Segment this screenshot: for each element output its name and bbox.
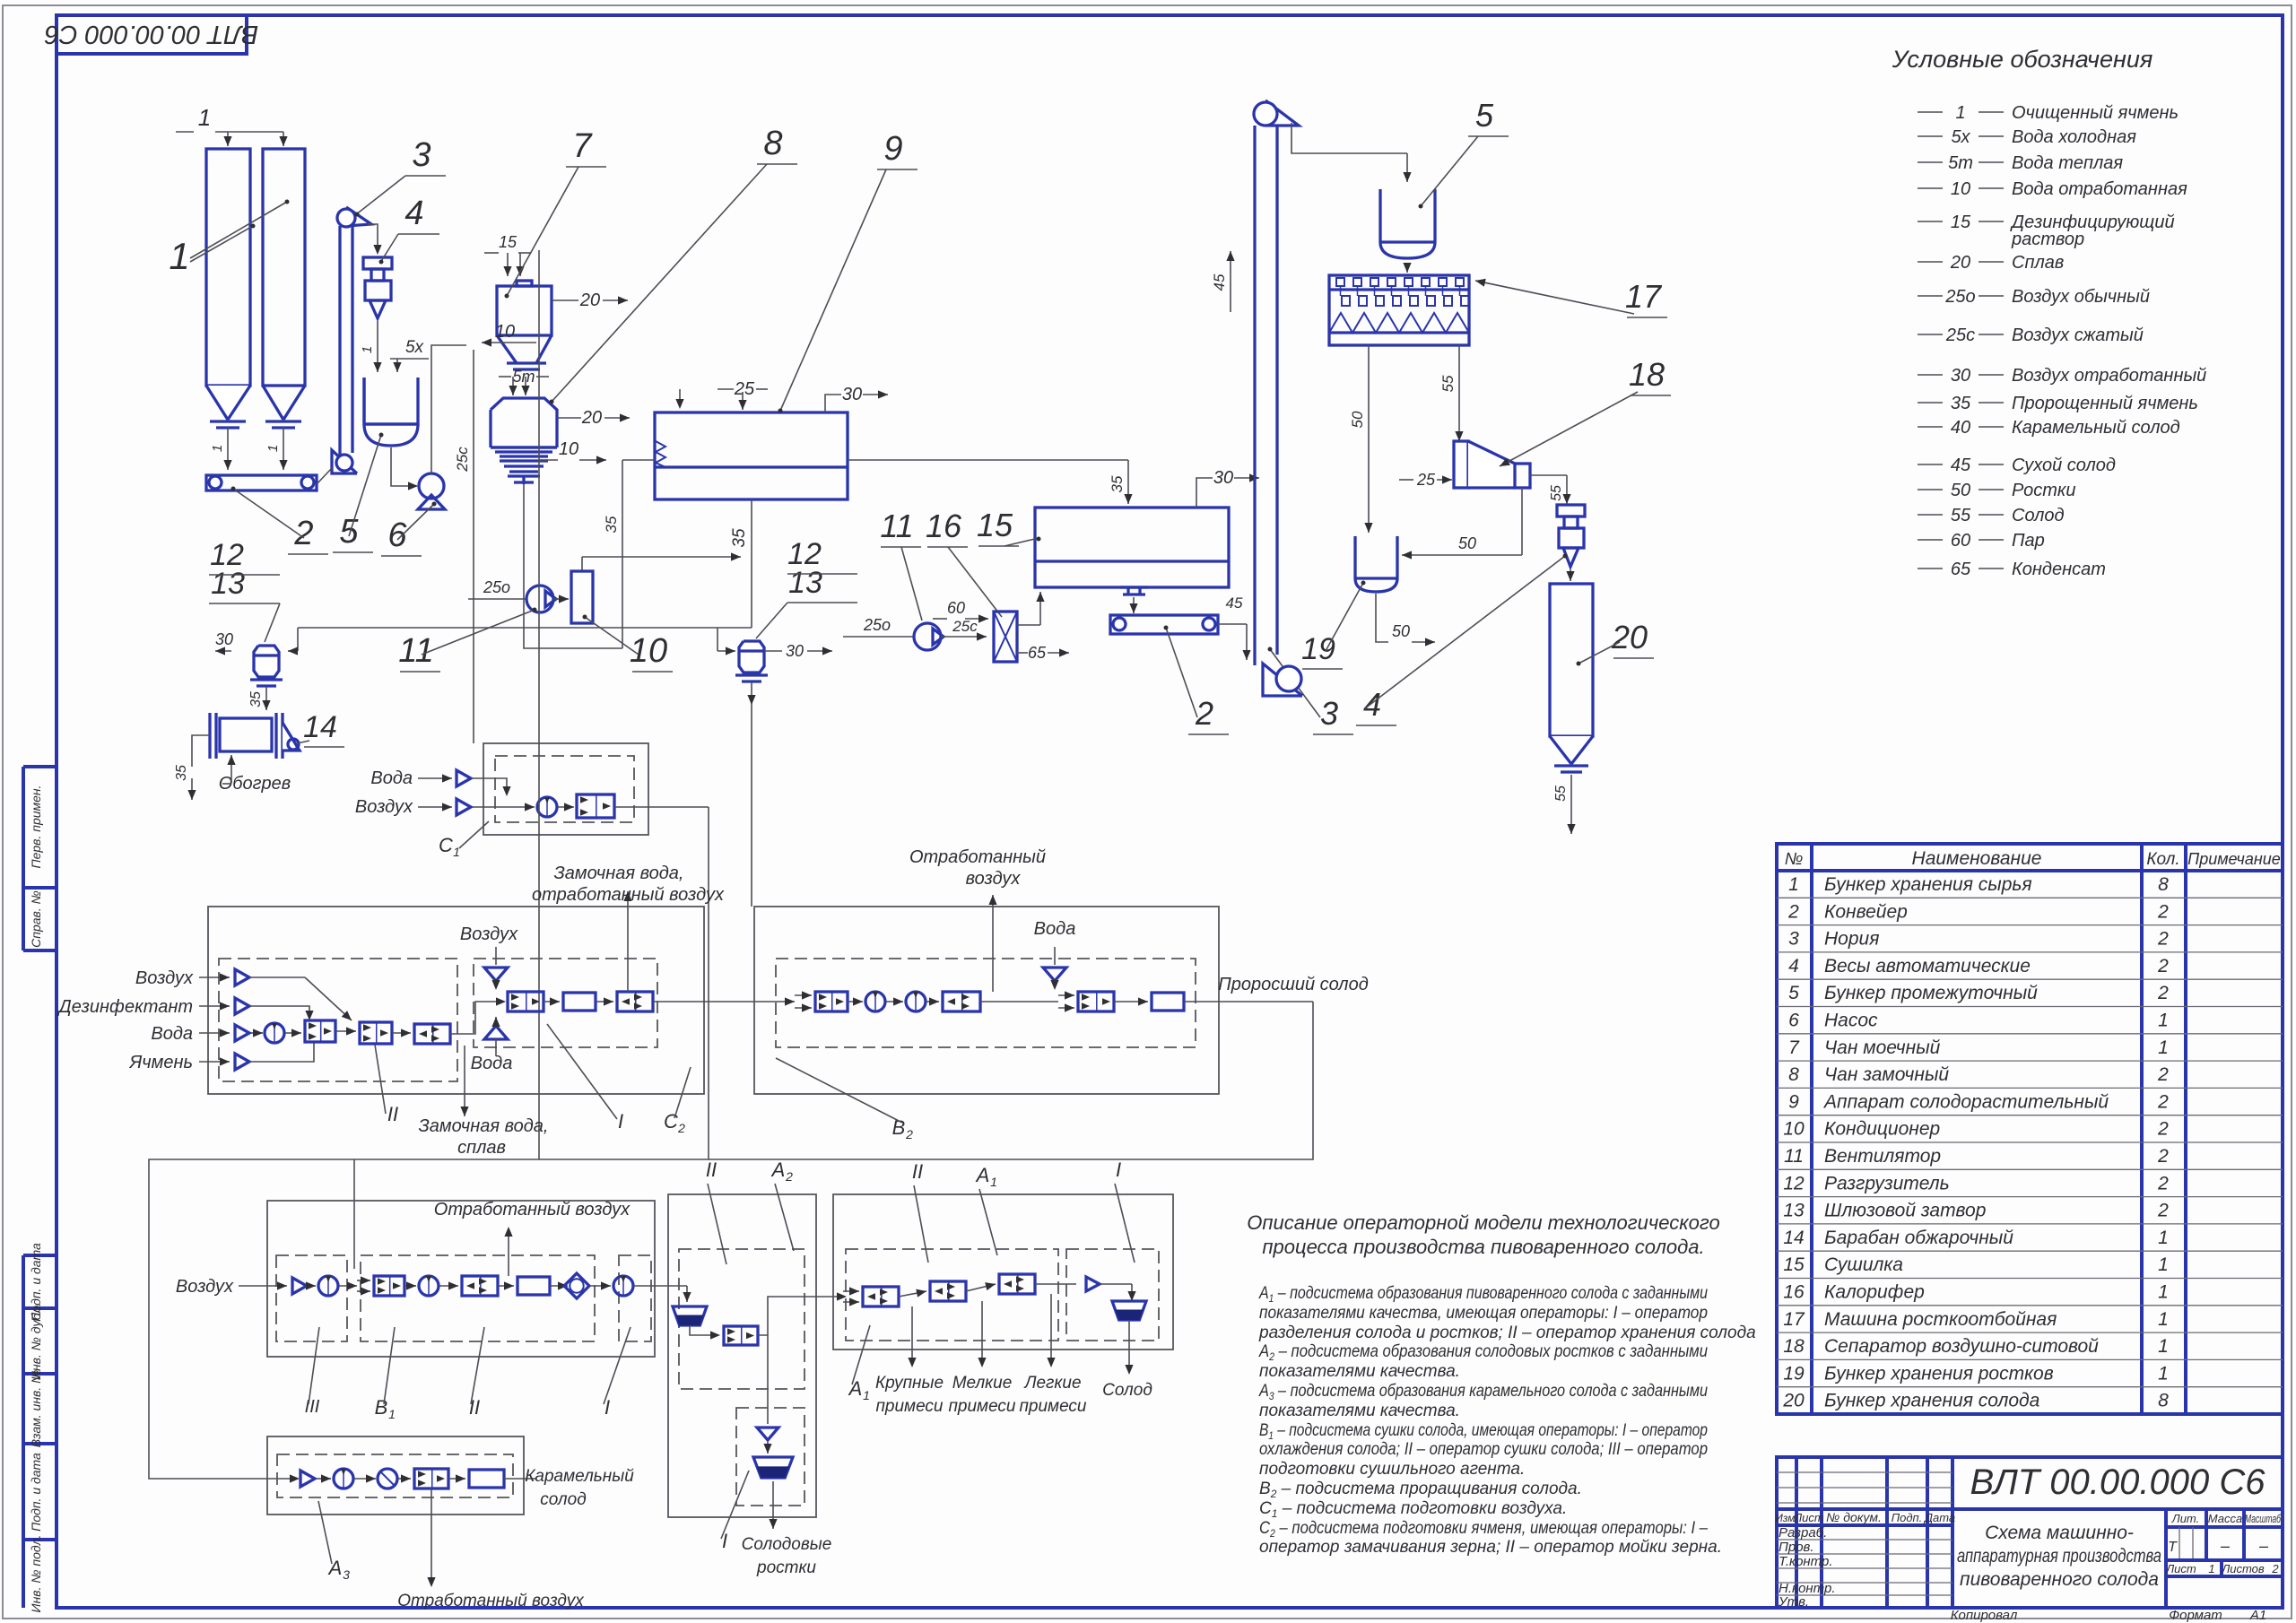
svg-text:2: 2 [2157, 1064, 2169, 1085]
svg-text:25с: 25с [1945, 325, 1975, 345]
svg-text:1: 1 [2158, 1037, 2169, 1058]
svg-text:Подп.: Подп. [1892, 1511, 1923, 1524]
svg-text:2: 2 [785, 1169, 793, 1184]
svg-text:Пар: Пар [2012, 531, 2045, 551]
svg-text:показателями качества.: показателями качества. [1259, 1402, 1460, 1420]
svg-text:Отработанный воздух: Отработанный воздух [397, 1592, 585, 1610]
svg-text:2: 2 [2157, 1201, 2169, 1221]
svg-text:Подп. и дата: Подп. и дата [29, 1453, 43, 1532]
svg-text:1: 1 [360, 346, 375, 353]
svg-text:Воздух: Воздух [355, 797, 413, 817]
svg-text:1: 1 [2158, 1282, 2169, 1303]
svg-text:1: 1 [2158, 1254, 2169, 1275]
svg-text:Пророщенный ячмень: Пророщенный ячмень [2012, 394, 2198, 413]
svg-text:Воздух: Воздух [460, 924, 518, 944]
svg-text:Чан моечный: Чан моечный [1824, 1037, 1941, 1058]
svg-text:8: 8 [763, 125, 782, 162]
svg-text:3: 3 [343, 1567, 350, 1582]
svg-text:Т.контр.: Т.контр. [1779, 1554, 1833, 1569]
svg-text:Сушилка: Сушилка [1824, 1254, 1903, 1275]
svg-text:5: 5 [339, 513, 359, 551]
svg-text:Инв. № дубл.: Инв. № дубл. [29, 1303, 43, 1380]
svg-text:Лист: Лист [1793, 1511, 1824, 1524]
svg-text:Солод: Солод [1102, 1381, 1152, 1400]
svg-text:№ докум.: № докум. [1826, 1510, 1882, 1524]
svg-text:50: 50 [1951, 481, 1970, 500]
svg-text:45: 45 [1951, 456, 1971, 475]
svg-text:Масштаб: Масштаб [2245, 1512, 2281, 1525]
svg-text:35: 35 [1109, 475, 1126, 492]
svg-text:Справ. №: Справ. № [29, 890, 43, 948]
svg-text:2: 2 [1195, 695, 1213, 732]
svg-text:Воздух отработанный: Воздух отработанный [2012, 366, 2206, 386]
svg-text:15: 15 [499, 233, 517, 251]
svg-text:3: 3 [412, 136, 430, 174]
svg-text:4: 4 [1363, 686, 1381, 723]
svg-text:Солодовые: Солодовые [742, 1535, 832, 1554]
svg-text:Отработанный: Отработанный [909, 847, 1046, 867]
svg-text:Воздух сжатый: Воздух сжатый [2012, 325, 2144, 345]
svg-text:6: 6 [387, 516, 407, 554]
svg-text:1: 1 [453, 845, 460, 859]
svg-text:1: 1 [265, 445, 281, 452]
svg-text:Бункер промежуточный: Бункер промежуточный [1824, 983, 2038, 1003]
svg-text:4: 4 [1788, 956, 1799, 976]
svg-text:2: 2 [677, 1121, 685, 1135]
svg-text:II: II [469, 1396, 480, 1419]
svg-text:17: 17 [1625, 278, 1663, 315]
svg-text:Ячмень: Ячмень [129, 1053, 193, 1072]
svg-text:Проросший солод: Проросший солод [1218, 975, 1369, 994]
svg-text:Вода: Вода [151, 1024, 193, 1044]
svg-text:16: 16 [1783, 1282, 1805, 1303]
svg-text:Вода: Вода [471, 1054, 513, 1073]
svg-text:примеси: примеси [1019, 1397, 1086, 1416]
svg-text:Дата: Дата [1923, 1511, 1955, 1524]
svg-text:Воздух: Воздух [176, 1277, 234, 1297]
svg-text:20: 20 [1950, 253, 1970, 273]
svg-text:Кондиционер: Кондиционер [1824, 1119, 1940, 1140]
svg-text:10: 10 [495, 322, 515, 342]
svg-text:13: 13 [211, 567, 245, 601]
svg-text:19: 19 [1783, 1363, 1805, 1384]
svg-text:Конденсат: Конденсат [2012, 560, 2106, 579]
svg-text:А1: А1 [2249, 1608, 2266, 1623]
svg-text:Масса: Масса [2208, 1512, 2242, 1525]
svg-text:Взам. инв. №: Взам. инв. № [29, 1370, 43, 1448]
svg-text:оператор замачивания зерна; II: оператор замачивания зерна; II – операто… [1259, 1538, 1722, 1557]
svg-text:Вода теплая: Вода теплая [2012, 153, 2123, 173]
svg-text:Перв. примен.: Перв. примен. [29, 785, 43, 868]
svg-text:55: 55 [1951, 506, 1971, 525]
svg-text:2: 2 [905, 1127, 913, 1141]
svg-text:сплав: сплав [457, 1138, 506, 1158]
svg-text:Карамельный солод: Карамельный солод [2012, 418, 2180, 438]
svg-text:Наименование: Наименование [1912, 848, 2042, 869]
svg-text:50: 50 [1349, 411, 1366, 428]
svg-text:Сепаратор воздушно-ситовой: Сепаратор воздушно-ситовой [1824, 1336, 2099, 1357]
svg-text:Бункер хранения сырья: Бункер хранения сырья [1824, 874, 2032, 895]
svg-text:45: 45 [1226, 595, 1243, 612]
svg-text:55: 55 [1549, 485, 1564, 501]
svg-text:2: 2 [2157, 1146, 2169, 1167]
svg-text:25: 25 [734, 379, 755, 399]
svg-text:10: 10 [1783, 1119, 1805, 1140]
svg-text:2: 2 [1787, 901, 1799, 922]
svg-text:Вода отработанная: Вода отработанная [2012, 179, 2187, 199]
svg-text:65: 65 [1951, 560, 1971, 579]
svg-text:процесса производства пивоваре: процесса производства пивоваренного соло… [1262, 1236, 1704, 1258]
svg-text:1: 1 [1788, 874, 1799, 895]
svg-text:–: – [2258, 1537, 2269, 1555]
svg-text:Вода: Вода [370, 768, 413, 788]
svg-text:В2 – подсистема проращивания с: В2 – подсистема проращивания солода. [1259, 1480, 1582, 1500]
svg-text:воздух: воздух [966, 869, 1022, 889]
svg-text:Вентилятор: Вентилятор [1824, 1146, 1941, 1167]
svg-text:Бункер хранения солода: Бункер хранения солода [1824, 1391, 2039, 1411]
svg-text:Карамельный: Карамельный [525, 1467, 634, 1486]
svg-text:С1 – подсистема подготовки воз: С1 – подсистема подготовки воздуха. [1259, 1499, 1567, 1520]
svg-text:6: 6 [1788, 1011, 1799, 1031]
svg-text:1: 1 [198, 104, 211, 131]
svg-text:А3 – подсистема образования ка: А3 – подсистема образования карамельного… [1258, 1382, 1708, 1402]
svg-text:17: 17 [1783, 1309, 1805, 1330]
svg-text:30: 30 [1951, 366, 1970, 386]
svg-text:примеси: примеси [875, 1397, 943, 1416]
svg-text:Разгрузитель: Разгрузитель [1824, 1173, 1950, 1193]
svg-text:Барабан обжарочный: Барабан обжарочный [1824, 1228, 2013, 1248]
svg-text:показателями качества.: показателями качества. [1259, 1362, 1460, 1381]
svg-text:ростки: ростки [756, 1558, 816, 1577]
svg-text:подготовки сушильного агента.: подготовки сушильного агента. [1259, 1460, 1525, 1479]
svg-text:Пров.: Пров. [1779, 1540, 1814, 1555]
svg-text:2: 2 [2157, 1091, 2169, 1112]
svg-text:5т: 5т [1948, 153, 1973, 173]
svg-text:раствор: раствор [2011, 230, 2084, 249]
svg-text:Солод: Солод [2012, 506, 2065, 525]
svg-text:7: 7 [572, 127, 593, 165]
svg-text:35: 35 [174, 765, 189, 781]
svg-text:Легкие: Легкие [1022, 1374, 1081, 1393]
svg-text:Формат: Формат [2169, 1608, 2222, 1623]
svg-text:5х: 5х [405, 338, 425, 357]
svg-text:пивоваренного солода: пивоваренного солода [1960, 1569, 2159, 1590]
svg-text:13: 13 [788, 566, 822, 600]
svg-text:5: 5 [1475, 97, 1494, 134]
svg-text:65: 65 [1028, 644, 1047, 662]
svg-text:55: 55 [1553, 785, 1569, 802]
svg-text:30: 30 [1213, 468, 1233, 488]
svg-text:С: С [439, 834, 453, 856]
svg-text:Вода холодная: Вода холодная [2012, 127, 2136, 147]
svg-text:2: 2 [2157, 1173, 2169, 1193]
svg-text:50: 50 [1458, 534, 1476, 552]
svg-text:15: 15 [1783, 1254, 1805, 1275]
svg-text:солод: солод [540, 1490, 586, 1509]
svg-text:Калорифер: Калорифер [1824, 1282, 1925, 1303]
svg-text:45: 45 [1211, 273, 1228, 291]
svg-text:14: 14 [1783, 1228, 1804, 1248]
svg-text:В: В [892, 1116, 906, 1139]
svg-text:Примечание: Примечание [2187, 850, 2281, 868]
svg-text:15: 15 [977, 507, 1013, 543]
svg-text:Т: Т [2168, 1540, 2178, 1555]
svg-text:Отработанный воздух: Отработанный воздух [434, 1200, 631, 1219]
svg-text:Воздух обычный: Воздух обычный [2012, 287, 2150, 307]
svg-text:А1 – подсистема образования: А1 – подсистема образования пивоваренног… [1258, 1284, 1708, 1305]
svg-text:Разраб.: Разраб. [1779, 1525, 1827, 1541]
svg-text:11: 11 [880, 508, 913, 544]
svg-text:Листов: Листов [2221, 1562, 2265, 1575]
svg-text:II: II [706, 1159, 717, 1181]
svg-text:2: 2 [2157, 956, 2169, 976]
svg-text:2: 2 [2157, 1119, 2169, 1140]
svg-text:Воздух: Воздух [135, 968, 194, 988]
svg-text:7: 7 [1788, 1037, 1800, 1058]
svg-text:Копировал: Копировал [1951, 1608, 2018, 1623]
svg-text:1: 1 [2158, 1011, 2169, 1031]
svg-text:Машина росткоотбойная: Машина росткоотбойная [1824, 1309, 2057, 1330]
svg-text:25о: 25о [1944, 287, 1975, 307]
svg-text:ВЛТ 00.00.000 С6: ВЛТ 00.00.000 С6 [44, 20, 258, 48]
svg-text:25с: 25с [952, 618, 978, 635]
svg-text:14: 14 [303, 710, 337, 744]
svg-text:1: 1 [210, 445, 225, 452]
svg-text:3: 3 [1320, 695, 1338, 732]
svg-text:13: 13 [1783, 1201, 1805, 1221]
svg-text:Мелкие: Мелкие [952, 1374, 1013, 1393]
svg-text:8: 8 [1788, 1064, 1799, 1085]
svg-text:30: 30 [786, 642, 804, 660]
svg-text:9: 9 [1788, 1091, 1799, 1112]
svg-text:Лит.: Лит. [2171, 1512, 2199, 1525]
svg-text:8: 8 [2158, 1391, 2169, 1411]
svg-text:–: – [2220, 1537, 2231, 1555]
svg-text:Дезинфектант: Дезинфектант [57, 997, 193, 1017]
svg-text:Конвейер: Конвейер [1824, 901, 1908, 922]
svg-text:А: А [770, 1159, 786, 1181]
svg-text:А: А [848, 1377, 863, 1400]
svg-text:2: 2 [2157, 901, 2169, 922]
svg-text:Инв. № подл.: Инв. № подл. [29, 1535, 43, 1613]
svg-text:20: 20 [1611, 619, 1648, 655]
svg-text:III: III [305, 1397, 320, 1417]
svg-text:10: 10 [559, 439, 578, 459]
svg-text:II: II [387, 1103, 398, 1125]
svg-text:30: 30 [215, 630, 233, 648]
svg-text:А: А [327, 1557, 343, 1579]
svg-text:1: 1 [990, 1175, 997, 1189]
svg-text:ВЛТ 00.00.000 С6: ВЛТ 00.00.000 С6 [1970, 1462, 2266, 1502]
svg-text:55: 55 [1439, 375, 1457, 392]
svg-text:В1 – подсистема сушки солода,: В1 – подсистема сушки солода, имеющая оп… [1259, 1421, 1708, 1442]
svg-text:4: 4 [404, 195, 423, 232]
svg-text:25о: 25о [863, 616, 891, 634]
svg-text:2: 2 [2157, 983, 2169, 1003]
svg-text:разделения солода и ростков; I: разделения солода и ростков; II – операт… [1258, 1324, 1756, 1342]
svg-text:50: 50 [1392, 622, 1410, 640]
svg-text:60: 60 [947, 599, 965, 617]
svg-text:8: 8 [2158, 874, 2169, 895]
svg-text:5: 5 [1788, 983, 1799, 1003]
svg-text:10: 10 [1951, 179, 1970, 199]
svg-text:25: 25 [1416, 471, 1436, 489]
svg-text:5т: 5т [512, 368, 535, 386]
svg-text:25с: 25с [454, 447, 471, 473]
svg-text:В: В [375, 1396, 388, 1419]
svg-text:I: I [1116, 1159, 1121, 1181]
svg-text:2: 2 [2157, 929, 2169, 950]
svg-text:19: 19 [1301, 632, 1335, 666]
svg-text:Лист: Лист [2165, 1562, 2196, 1575]
svg-text:А2 – подсистема образования со: А2 – подсистема образования солодовых ро… [1258, 1342, 1708, 1363]
svg-text:20: 20 [1782, 1391, 1805, 1411]
svg-text:Весы автоматические: Весы автоматические [1824, 956, 2031, 976]
svg-text:20: 20 [581, 408, 602, 428]
svg-text:35: 35 [603, 516, 620, 533]
svg-text:12: 12 [1783, 1173, 1805, 1193]
svg-text:18: 18 [1629, 356, 1665, 393]
svg-text:9: 9 [883, 130, 902, 168]
svg-text:Условные обозначения: Условные обозначения [1892, 46, 2153, 73]
svg-text:1: 1 [2158, 1228, 2169, 1248]
svg-text:1: 1 [169, 235, 189, 277]
svg-text:Кол.: Кол. [2146, 850, 2179, 869]
svg-text:3: 3 [1788, 929, 1799, 950]
svg-text:1: 1 [2158, 1309, 2169, 1330]
svg-text:60: 60 [1951, 531, 1970, 551]
svg-text:Замочная вода,: Замочная вода, [554, 864, 684, 883]
svg-text:10: 10 [630, 632, 667, 670]
svg-text:Насос: Насос [1824, 1011, 1878, 1031]
svg-text:2: 2 [2271, 1562, 2279, 1575]
svg-text:40: 40 [1951, 418, 1970, 438]
svg-text:Сплав: Сплав [2012, 253, 2064, 273]
svg-text:Ростки: Ростки [2012, 481, 2075, 500]
svg-text:11: 11 [398, 632, 433, 670]
svg-text:16: 16 [926, 508, 962, 544]
svg-text:Утв.: Утв. [1778, 1594, 1809, 1610]
svg-text:1: 1 [1955, 103, 1965, 123]
svg-text:20: 20 [579, 291, 600, 310]
svg-text:примеси: примеси [948, 1397, 1015, 1416]
svg-text:I: I [618, 1110, 623, 1133]
svg-text:С2 – подсистема подготовки ячм: С2 – подсистема подготовки ячменя, имеющ… [1259, 1519, 1708, 1540]
svg-text:отработанный воздух: отработанный воздух [532, 885, 725, 905]
svg-text:35: 35 [730, 528, 749, 548]
svg-text:1: 1 [2208, 1562, 2214, 1575]
svg-text:№: № [1785, 850, 1804, 869]
svg-text:30: 30 [842, 385, 862, 404]
svg-text:1: 1 [2158, 1336, 2169, 1357]
svg-text:II: II [912, 1160, 923, 1183]
svg-text:Вода: Вода [1034, 919, 1076, 939]
svg-text:18: 18 [1783, 1336, 1805, 1357]
svg-text:А: А [975, 1164, 990, 1186]
svg-text:аппаратурная производства: аппаратурная производства [1957, 1546, 2161, 1567]
svg-text:11: 11 [1784, 1146, 1804, 1167]
svg-text:5х: 5х [1951, 127, 1970, 147]
svg-text:35: 35 [1951, 394, 1971, 413]
svg-text:Схема машинно-: Схема машинно- [1985, 1523, 2134, 1543]
svg-text:1: 1 [388, 1407, 396, 1421]
svg-text:1: 1 [863, 1388, 870, 1402]
svg-text:Бункер хранения ростков: Бункер хранения ростков [1824, 1363, 2054, 1384]
svg-text:Аппарат солодорастительный: Аппарат солодорастительный [1822, 1091, 2109, 1112]
svg-text:Чан замочный: Чан замочный [1824, 1064, 1949, 1085]
svg-text:Сухой солод: Сухой солод [2012, 456, 2116, 475]
svg-text:Описание операторной модели те: Описание операторной модели технологичес… [1247, 1211, 1719, 1234]
svg-text:Очищенный ячмень: Очищенный ячмень [2012, 103, 2179, 123]
svg-text:Крупные: Крупные [875, 1374, 944, 1393]
svg-text:35: 35 [248, 691, 264, 707]
svg-text:Замочная вода,: Замочная вода, [419, 1116, 549, 1136]
svg-text:показателями качества, имеющ: показателями качества, имеющая операторы… [1259, 1304, 1708, 1323]
svg-text:15: 15 [1951, 213, 1971, 232]
svg-text:1: 1 [2158, 1363, 2169, 1384]
svg-text:25о: 25о [483, 578, 510, 596]
svg-text:Нория: Нория [1824, 929, 1879, 950]
svg-text:Шлюзовой затвор: Шлюзовой затвор [1824, 1201, 1986, 1221]
svg-text:охлаждения солода; II – операт: охлаждения солода; II – оператор сушки с… [1259, 1440, 1708, 1459]
